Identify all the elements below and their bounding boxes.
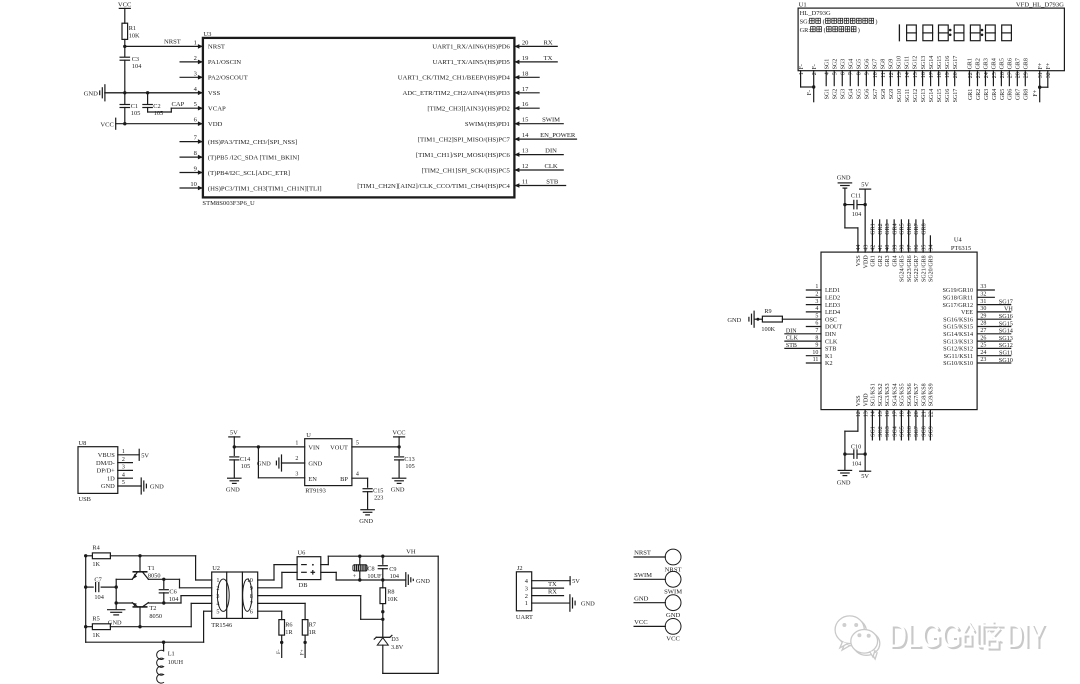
svg-text:CAP: CAP	[171, 101, 184, 108]
svg-text:SG7: SG7	[873, 59, 879, 70]
svg-text:1: 1	[799, 72, 805, 75]
power flag VCC (top of R1)	[118, 2, 132, 24]
svg-text:F-: F-	[807, 90, 813, 95]
vfd driver U4 pin 38 SG24/GR5 (top)	[900, 220, 906, 282]
svg-text:10UH: 10UH	[168, 659, 184, 666]
svg-text:6: 6	[250, 608, 253, 615]
svg-text:104: 104	[169, 596, 179, 603]
ground below C15	[359, 510, 374, 525]
wire C6 bottom to U2 pin 3	[164, 596, 212, 603]
vfd digit 8 #5	[970, 25, 980, 41]
vfd digit 8 #2	[923, 25, 933, 41]
svg-text:SG20/GR9: SG20/GR9	[929, 255, 935, 282]
mcu U3 pin 9 (T)PB4	[180, 166, 290, 177]
node T2 emitter	[138, 625, 141, 628]
svg-text:3: 3	[216, 593, 219, 600]
zener diode D3 3.8V	[374, 635, 404, 673]
power flag 5V (regulator input)	[229, 430, 240, 447]
uart J2 pin 2 wire RX	[532, 589, 564, 596]
node R8 bottom b	[381, 618, 384, 621]
svg-text:SG22/GR7: SG22/GR7	[914, 255, 920, 282]
svg-text:R6: R6	[285, 621, 292, 628]
capacitor C13	[395, 447, 415, 478]
vfd digit 8 #6	[986, 25, 996, 41]
svg-text:T1: T1	[148, 565, 155, 572]
node C11 left	[843, 203, 846, 206]
svg-text:DIN: DIN	[786, 328, 797, 334]
svg-text:TX: TX	[548, 581, 557, 588]
wire C6 top to U2 pin 2	[164, 579, 212, 588]
svg-text:TX: TX	[544, 55, 553, 62]
svg-text:10K: 10K	[387, 596, 398, 603]
svg-text:9: 9	[250, 585, 253, 592]
svg-text:RX: RX	[548, 589, 557, 596]
wire left bus	[85, 556, 87, 642]
wire CAP net to pin 5 VCAP	[148, 101, 203, 112]
svg-text:U1: U1	[799, 2, 807, 9]
svg-text:4: 4	[216, 601, 219, 608]
svg-text:14: 14	[905, 72, 911, 78]
svg-text:GND: GND	[257, 461, 271, 468]
svg-text:10: 10	[190, 181, 197, 188]
node L1 tap	[162, 641, 165, 644]
svg-text:C11: C11	[851, 193, 861, 200]
svg-text:VCC: VCC	[100, 121, 114, 128]
svg-text:9: 9	[194, 166, 197, 173]
vfd driver U4 pin 1 LED1	[806, 284, 840, 294]
svg-text:5V: 5V	[230, 430, 238, 437]
svg-text:SG6: SG6	[865, 89, 871, 100]
svg-text:VDD: VDD	[208, 121, 223, 128]
svg-text:29: 29	[1024, 72, 1030, 78]
svg-text:): )	[875, 18, 877, 25]
svg-text:GR4: GR4	[992, 89, 998, 100]
svg-text:SG12/KS12: SG12/KS12	[943, 346, 973, 353]
svg-text:BP: BP	[340, 476, 348, 483]
node C8 bottom	[358, 578, 361, 581]
vfd U1 pin 31 F+	[1038, 62, 1044, 102]
svg-text:38: 38	[900, 245, 906, 251]
svg-text:CLK: CLK	[786, 336, 799, 342]
wire base column	[115, 579, 117, 608]
svg-text:GR3: GR3	[984, 89, 990, 100]
vfd U1 pin 19 SG16	[945, 56, 951, 103]
power flag VCC (VDD feed)	[100, 118, 115, 129]
node T1 collector	[138, 554, 141, 557]
svg-text:3: 3	[194, 70, 197, 77]
vfd driver U4 pin 36 SG22/GR7 (top)	[914, 220, 920, 282]
svg-text:GR4: GR4	[992, 58, 998, 69]
svg-text:32: 32	[1046, 72, 1052, 78]
svg-text:UART: UART	[516, 614, 533, 621]
svg-text:GR2: GR2	[976, 89, 982, 100]
svg-text:NRST: NRST	[164, 39, 181, 46]
svg-text:C15: C15	[373, 487, 383, 494]
vfd driver U4 pin 32 SG18/GR11	[943, 292, 995, 302]
svg-text:F+: F+	[1033, 89, 1039, 96]
svg-text:UART1_TX/AIN5/(HS)PD5: UART1_TX/AIN5/(HS)PD5	[433, 59, 511, 66]
svg-text:SG7: SG7	[914, 426, 920, 437]
transistor T2 8050	[132, 603, 162, 627]
svg-text:1: 1	[216, 577, 219, 584]
svg-text:SG17: SG17	[953, 89, 959, 103]
vfd driver U4 pin 37 SG23/GR6 (top)	[907, 220, 913, 282]
svg-text:10: 10	[247, 577, 253, 584]
svg-text:NRST: NRST	[208, 44, 225, 51]
vfd U1 pin 14 SG11	[905, 56, 911, 102]
vfd driver U4 pin 13 VDD (bottom)	[863, 393, 869, 417]
svg-text:34: 34	[929, 245, 935, 251]
vfd U1 pin 28 GR7	[1016, 58, 1022, 100]
svg-text:23: 23	[980, 357, 986, 363]
svg-text:C6: C6	[169, 588, 176, 595]
vfd digit 8 #3	[939, 25, 949, 41]
vfd U1 pin 32 F+	[1046, 62, 1052, 87]
uart connector J2 body	[516, 565, 533, 621]
svg-text:3: 3	[295, 472, 298, 478]
vfd U1 pin 23 GR2	[976, 58, 982, 100]
svg-text:GND: GND	[666, 612, 681, 619]
power flag 5V (J2)	[570, 577, 580, 586]
svg-text:SG16: SG16	[945, 89, 951, 103]
svg-text:VDD: VDD	[863, 255, 869, 269]
node C10 left	[843, 452, 846, 455]
svg-text:EN: EN	[308, 476, 317, 483]
svg-text:2: 2	[812, 72, 818, 75]
vfd U1 pin 26 GR5	[1000, 58, 1006, 100]
svg-text:LED2: LED2	[825, 295, 840, 302]
node C9 top	[381, 555, 384, 558]
power flag GND (left of VSS)	[84, 85, 203, 101]
vfd driver U4 pin 4 LED4	[806, 306, 840, 316]
svg-text:VDD: VDD	[863, 393, 869, 407]
svg-text:10: 10	[873, 72, 879, 78]
svg-text:[TIM1_CH1]/SPI_MOSI/(HS)PC6: [TIM1_CH1]/SPI_MOSI/(HS)PC6	[416, 152, 511, 159]
vfd driver U4 pin 15 SG2/KS2 (bottom)	[878, 383, 884, 440]
vfd U1 pin 13 SG10	[897, 56, 903, 103]
svg-text:GR8: GR8	[1024, 89, 1030, 100]
svg-text:7: 7	[849, 72, 855, 75]
wire T1 emitter to base node	[116, 578, 132, 580]
vfd digit 1 segment	[898, 25, 900, 41]
svg-text:SG8: SG8	[881, 89, 887, 100]
vfd driver U4 pin 5 OSC	[782, 313, 837, 323]
svg-text:SG10: SG10	[897, 89, 903, 103]
usb U8 pin 4 1D	[107, 472, 132, 482]
svg-text:VCC: VCC	[634, 619, 648, 626]
node C8 top	[358, 555, 361, 558]
ground below base column	[108, 610, 125, 627]
vfd driver U4 pin 27 SG14/KS14	[943, 328, 1013, 338]
usb U8 pin 1 VBUS	[98, 449, 139, 459]
power flag GND (left of R9)	[727, 311, 762, 327]
mcu U3 pin 5 VCAP	[194, 101, 226, 112]
svg-text:1R: 1R	[309, 629, 317, 636]
vfd driver U4 pin 43 VDD (top)	[863, 245, 869, 269]
svg-text:STM8S003F3P6_U: STM8S003F3P6_U	[202, 200, 255, 207]
node C9 bottom	[381, 578, 384, 581]
svg-text:SG2: SG2	[833, 89, 839, 100]
svg-text:GR5: GR5	[1000, 58, 1006, 69]
inductor L1 10UH	[157, 642, 184, 683]
svg-text:30: 30	[980, 306, 986, 312]
svg-text:PA2/OSCOUT: PA2/OSCOUT	[208, 75, 248, 82]
svg-text:SG7/KS7: SG7/KS7	[914, 383, 920, 406]
svg-text:13: 13	[522, 148, 529, 155]
wire C3 to GND node	[124, 60, 126, 93]
svg-text:GND: GND	[416, 578, 430, 585]
svg-text:11: 11	[813, 357, 819, 363]
vfd U1 pin number 1	[799, 72, 805, 75]
svg-text:SG15/KS15: SG15/KS15	[943, 324, 973, 331]
svg-text:SG15: SG15	[937, 89, 943, 103]
wire VDD pin 13 from 5V	[864, 410, 866, 455]
svg-text:F+: F+	[1046, 62, 1052, 69]
svg-text:1: 1	[194, 39, 197, 46]
wire EN net	[258, 447, 304, 478]
svg-text:LED3: LED3	[825, 302, 840, 309]
vfd driver U4 pin 30 VEE	[961, 306, 1013, 316]
svg-text:SG3: SG3	[885, 426, 891, 437]
svg-text:18: 18	[900, 411, 906, 417]
svg-text:SWIM: SWIM	[542, 117, 560, 124]
svg-text:EN_POWER: EN_POWER	[540, 132, 576, 139]
svg-text:18: 18	[937, 72, 943, 78]
svg-text:9: 9	[865, 72, 871, 75]
svg-text:GR8: GR8	[921, 223, 927, 234]
svg-text:(T)PB5 /I2C_SDA [TIM1_BKIN]: (T)PB5 /I2C_SDA [TIM1_BKIN]	[208, 154, 299, 161]
svg-text:10: 10	[812, 350, 818, 356]
node VIN junction	[233, 445, 236, 448]
vfd driver U4 pin 40 GR3 (top)	[885, 220, 891, 267]
node base column C7	[115, 585, 118, 588]
svg-text:104: 104	[390, 573, 399, 580]
resistor R1	[122, 23, 140, 46]
svg-text:USB: USB	[79, 496, 91, 503]
svg-text:[TIM2_CH3][AIN3]/(HS)PD2: [TIM2_CH3][AIN3]/(HS)PD2	[427, 106, 509, 113]
svg-text:39: 39	[892, 245, 898, 251]
mcu U3 pin 7 (HS)PA3	[180, 135, 297, 146]
svg-text:1R: 1R	[285, 629, 293, 636]
svg-text:SG13: SG13	[999, 335, 1013, 342]
node C1 top	[123, 91, 126, 94]
vfd U1 pin 15 SG12	[913, 56, 919, 103]
svg-text:GR2: GR2	[878, 223, 884, 234]
wire VH rail	[328, 549, 438, 557]
svg-text:27: 27	[980, 328, 986, 334]
svg-text:SG13/KS13: SG13/KS13	[943, 338, 973, 345]
svg-text:VEE: VEE	[961, 309, 973, 316]
wire T2 base wire	[116, 602, 132, 604]
vfd U1 text GR note (Chinese)	[800, 27, 860, 34]
svg-text:SG14: SG14	[929, 56, 935, 70]
svg-text:VCC: VCC	[118, 2, 132, 9]
svg-text:10K: 10K	[129, 32, 140, 39]
svg-text:16: 16	[921, 72, 927, 78]
vfd driver U4 pin 11 K2	[806, 357, 832, 367]
wire VDD pin 43 from 5V	[864, 205, 866, 253]
svg-text:3: 3	[122, 465, 125, 471]
svg-text:DLGG: DLGG	[888, 617, 961, 654]
svg-text:C1: C1	[131, 103, 138, 110]
node VDD junction	[123, 122, 126, 125]
vfd U1 pin 7 SG4	[848, 59, 854, 100]
svg-text:SG10: SG10	[999, 357, 1013, 364]
regulator U RT9193 body	[305, 432, 352, 495]
svg-text:1D: 1D	[107, 475, 115, 482]
svg-text:5V: 5V	[572, 578, 580, 585]
svg-text:PT6315: PT6315	[951, 245, 971, 252]
svg-text:SWIM: SWIM	[634, 572, 652, 579]
mcu U3 pin 18 HS)PD4	[398, 70, 539, 81]
vfd driver U4 pin 6 DOUT	[806, 321, 842, 331]
capacitor C2	[143, 93, 163, 117]
svg-text:11: 11	[881, 72, 887, 78]
vfd U1 pin 29 GR8	[1023, 58, 1029, 100]
svg-text:GR1: GR1	[968, 89, 974, 100]
vfd U1 pin 4 SG1	[824, 59, 830, 100]
vfd display U1 body	[798, 2, 1064, 71]
svg-text:SG16/KS16: SG16/KS16	[943, 316, 973, 323]
svg-text:SG11: SG11	[905, 89, 911, 102]
vfd U1 pin 8 SG5	[857, 59, 863, 100]
capacitor C1	[120, 93, 140, 124]
node F- junction	[812, 85, 815, 88]
svg-text:104: 104	[852, 460, 861, 467]
svg-text:6: 6	[841, 72, 847, 75]
svg-text:SG4: SG4	[892, 426, 898, 437]
mcu U3 pin 17 HS)PD3	[403, 86, 540, 97]
vfd driver U4 pin 16 SG3/KS3 (bottom)	[885, 383, 891, 440]
svg-text:SG9/KS9: SG9/KS9	[929, 383, 935, 406]
svg-text:VH: VH	[1004, 306, 1013, 313]
svg-text:2: 2	[194, 55, 197, 62]
capacitor C10	[845, 443, 865, 467]
resistor R4	[86, 544, 111, 568]
svg-text:6: 6	[815, 321, 818, 327]
power flag 5V (U4 bottom)	[860, 454, 871, 480]
svg-text:4: 4	[356, 471, 359, 477]
svg-text:12: 12	[522, 163, 529, 170]
svg-text:F-: F-	[812, 64, 818, 69]
svg-text:5: 5	[833, 72, 839, 75]
wire F- join	[801, 86, 814, 88]
usb U8 pin 3 DP/D+	[97, 465, 133, 475]
vfd driver U4 pin 34 SG20/GR9 (top)	[929, 236, 935, 282]
svg-text:SG18/GR11: SG18/GR11	[943, 295, 973, 302]
svg-text:8: 8	[815, 335, 818, 341]
svg-text:1K: 1K	[92, 632, 100, 639]
ground below C13	[391, 478, 406, 493]
svg-text:U2: U2	[212, 565, 220, 572]
svg-text:SG12: SG12	[913, 89, 919, 103]
svg-text:16: 16	[522, 101, 529, 108]
svg-text:SG3: SG3	[841, 89, 847, 100]
svg-text:C2: C2	[153, 103, 160, 110]
capacitor C6	[159, 579, 179, 603]
vfd U1 text HL_D793G	[800, 10, 831, 17]
svg-text:L1: L1	[168, 651, 175, 658]
vfd driver U4 pin 20 SG7/KS7 (bottom)	[914, 383, 920, 440]
svg-text:SG17: SG17	[999, 298, 1013, 305]
svg-text:GR8: GR8	[1023, 58, 1029, 69]
svg-text:17: 17	[929, 72, 935, 78]
vfd driver U4 PT6315 body	[821, 236, 977, 409]
node left bus C7	[84, 585, 87, 588]
svg-text:5: 5	[194, 101, 197, 108]
vfd U1 pin 22 GR1	[968, 58, 974, 100]
vfd U1 pin 12 SG9	[889, 59, 895, 100]
vfd U1 pin 17 SG14	[929, 56, 935, 103]
net label F+ (below)	[1033, 89, 1039, 96]
svg-text:223: 223	[374, 495, 383, 502]
vfd U1 text SG note (Chinese)	[800, 18, 878, 25]
svg-text:VSS: VSS	[856, 255, 862, 266]
wire BP pin 4 to C15	[352, 478, 368, 487]
svg-text:2: 2	[525, 593, 528, 600]
wire bridge out- to gnd rail	[321, 572, 406, 580]
wire T1 collector to C6	[148, 578, 163, 580]
svg-text:31: 31	[1038, 72, 1044, 78]
svg-text:C14: C14	[240, 456, 250, 463]
svg-text:SG6: SG6	[907, 426, 913, 437]
svg-text:F+: F+	[1038, 62, 1044, 69]
svg-text:GND: GND	[634, 595, 649, 602]
svg-text:10UF: 10UF	[367, 573, 382, 580]
svg-text:RT9193: RT9193	[305, 488, 326, 495]
svg-text:T2: T2	[149, 605, 156, 612]
wire NRST net to pin 1	[125, 39, 203, 47]
svg-text:5V: 5V	[861, 473, 869, 480]
svg-text:VCAP: VCAP	[208, 106, 226, 113]
svg-text:5: 5	[122, 480, 125, 486]
svg-text:3: 3	[815, 299, 818, 305]
svg-text:SG2/KS2: SG2/KS2	[878, 383, 884, 406]
svg-text:44: 44	[856, 245, 862, 251]
svg-text:SWIM/(HS)PD1: SWIM/(HS)PD1	[465, 121, 510, 128]
svg-text:9: 9	[815, 343, 818, 349]
svg-text:(T)PB4/I2C_SCL[ADC_ETR]: (T)PB4/I2C_SCL[ADC_ETR]	[208, 170, 290, 177]
svg-text:R9: R9	[764, 308, 771, 315]
svg-text:35: 35	[921, 245, 927, 251]
svg-text:1: 1	[525, 600, 528, 607]
svg-text:SG14/KS14: SG14/KS14	[943, 331, 973, 338]
svg-text:16: 16	[885, 411, 891, 417]
svg-text:104: 104	[132, 63, 142, 70]
svg-text:SG10/KS10: SG10/KS10	[943, 360, 973, 367]
svg-text:CLK: CLK	[544, 163, 557, 170]
svg-text:SG13: SG13	[921, 56, 927, 70]
svg-text:23: 23	[976, 72, 982, 78]
capacitor C14	[230, 447, 250, 478]
vfd U1 pin 9 SG6	[865, 59, 871, 100]
vfd U1 pin 27 GR6	[1008, 58, 1014, 100]
vfd driver U4 pin 3 LED3	[806, 299, 840, 309]
svg-text:GR1: GR1	[871, 223, 877, 234]
svg-text:11: 11	[522, 179, 528, 186]
svg-text:DIN: DIN	[545, 148, 557, 155]
svg-text:R1: R1	[129, 25, 136, 32]
vfd driver U4 pin 42 GR1 (top)	[871, 220, 877, 267]
svg-text:): )	[858, 27, 860, 34]
svg-text:SG11: SG11	[999, 350, 1013, 357]
wire 5V to VIN pin 1	[234, 446, 304, 448]
vfd driver U4 pin 44 VSS (top)	[856, 245, 862, 267]
svg-text:(HS)PC3/TIM1_CH3[TIM1_CH1N][TL: (HS)PC3/TIM1_CH3[TIM1_CH1N][TLI]	[208, 185, 322, 192]
mcu U3 pin 19 HS)PD5	[433, 55, 558, 66]
wire VSS pin 12 to GND	[845, 410, 858, 455]
svg-text:17: 17	[522, 86, 529, 93]
